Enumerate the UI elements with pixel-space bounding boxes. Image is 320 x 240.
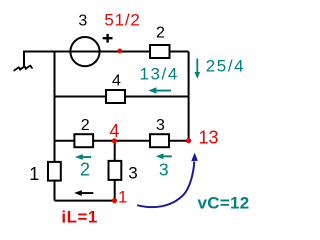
- wire row3 horizontal: [55, 140, 189, 142]
- resistor R3v box (vertical): [109, 161, 122, 180]
- svg-text:2: 2: [156, 25, 165, 42]
- V1 polarity plus sign: [103, 34, 113, 43]
- wire ground stub vertical: [23, 51, 25, 67]
- svg-text:1: 1: [29, 164, 39, 184]
- resistor R2b box (row3 left): [74, 134, 93, 147]
- current arrow 3 (teal, left, under R3b): [156, 153, 172, 159]
- resistor R1 box (vertical): [48, 162, 61, 181]
- svg-text:iL=1: iL=1: [61, 208, 98, 227]
- svg-text:4: 4: [112, 73, 121, 90]
- svg-text:2: 2: [80, 159, 90, 179]
- resistor R2top box: [150, 45, 170, 58]
- wire bottom horizontal: [55, 200, 115, 202]
- svg-text:13/4: 13/4: [139, 64, 179, 83]
- current arrow 2 (teal, left, under R2b): [75, 154, 91, 160]
- svg-text:4: 4: [109, 121, 119, 141]
- junction dot on top wire: [117, 49, 122, 54]
- current arrow for 13/4 (teal, left): [149, 87, 172, 94]
- svg-text:13: 13: [198, 127, 218, 147]
- wire right vertical from top corner down to node 13: [188, 52, 190, 141]
- svg-text:3: 3: [159, 160, 169, 180]
- svg-text:vC=12: vC=12: [197, 194, 249, 213]
- inductor current arrow iL (black, left): [74, 190, 93, 196]
- node 1 junction dot: [112, 198, 117, 203]
- wire top horizontal from ground corner through source V1 to right corner: [24, 51, 189, 53]
- node 13 junction dot: [186, 138, 191, 143]
- svg-text:3: 3: [128, 163, 137, 182]
- resistor R3b box (row3 right): [150, 134, 169, 147]
- wire middle vertical node4 to node1: [114, 141, 116, 201]
- branch current arrow 25/4 (teal, down): [195, 59, 201, 79]
- svg-text:2: 2: [81, 117, 90, 134]
- voltage source V1 circle: [70, 37, 99, 66]
- svg-text:1: 1: [118, 188, 127, 207]
- resistor R4 box: [106, 90, 125, 103]
- annotation arrow vC (blue curved): [137, 162, 194, 208]
- node 4 junction dot: [112, 138, 117, 143]
- svg-text:3: 3: [156, 117, 165, 134]
- wire row2 horizontal: [55, 96, 189, 98]
- svg-text:51/2: 51/2: [104, 11, 140, 30]
- svg-text:25/4: 25/4: [206, 57, 246, 76]
- svg-text:3: 3: [78, 13, 87, 30]
- ground: [14, 66, 32, 71]
- wire left vertical bus: [54, 52, 56, 201]
